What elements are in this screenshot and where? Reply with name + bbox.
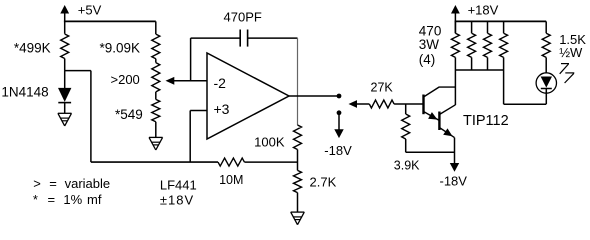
svg-text:±18V: ±18V (160, 193, 194, 208)
resistor 3.9K (405, 104, 407, 114)
potentiometer >200 (155, 59, 157, 63)
svg-text:½W: ½W (559, 45, 583, 60)
svg-text:-18V: -18V (324, 143, 352, 158)
node output dot (337, 94, 342, 99)
resistor 100K (294, 125, 302, 150)
svg-text:*499K: *499K (14, 41, 51, 56)
svg-text:+18V: +18V (468, 3, 499, 18)
wire +18V rail (455, 20, 547, 22)
resistor 470 #4 (503, 21, 505, 33)
power +5V (60, 5, 69, 14)
resistor 2.7K (294, 170, 302, 192)
svg-text:*9.09K: *9.09K (100, 40, 141, 55)
svg-text:+5V: +5V (78, 3, 102, 18)
svg-text:-18V: -18V (440, 173, 468, 188)
transistor Q1 (TIP112 first) (422, 95, 424, 115)
svg-text:LF441: LF441 (160, 178, 197, 193)
feedback wire vertical (190, 38, 192, 81)
svg-text:1N4148: 1N4148 (1, 84, 48, 99)
wire feedback to output node (297, 38, 299, 125)
resistor R *499K (61, 34, 69, 59)
LED D2 (536, 73, 556, 93)
resistor 10M (218, 158, 244, 166)
node A wire to bottom rail (65, 70, 91, 72)
svg-text:2.7K: 2.7K (310, 175, 337, 190)
diode D1 1N4148 (64, 71, 66, 88)
svg-text:100K: 100K (254, 135, 285, 150)
svg-text:470PF: 470PF (224, 10, 262, 25)
resistor *9.09K (155, 21, 157, 34)
capacitor C1 470PF (191, 37, 241, 39)
op-amp U1 LF441 (207, 53, 289, 139)
svg-text:3W: 3W (419, 37, 440, 52)
resistor 470 #3 (487, 21, 489, 33)
wire emitter to -18V (454, 138, 456, 163)
wire resistor bottom bar (455, 69, 503, 71)
svg-text:-2: -2 (214, 75, 227, 91)
resistor 1.5K (545, 21, 547, 33)
wire bar to LED cathode (503, 70, 505, 104)
wire op-amp output (289, 95, 339, 97)
LED emission arrows (561, 63, 569, 65)
svg-text:10M: 10M (219, 173, 243, 187)
ground under 2.7K (291, 211, 305, 213)
svg-text:3.9K: 3.9K (394, 159, 420, 173)
svg-text:>200: >200 (111, 72, 140, 87)
node -18V dot (337, 110, 342, 115)
wire +3 input (190, 110, 207, 112)
ground under diode (58, 112, 72, 114)
wire bottom rail (91, 161, 218, 163)
transistor Q2 (TIP112 second) (438, 112, 440, 131)
power -18V right (450, 163, 459, 172)
ground under 549 (149, 136, 163, 138)
svg-text:TIP112: TIP112 (463, 113, 509, 129)
svg-text:>=variable: >=variable (33, 176, 110, 191)
svg-text:+3: +3 (214, 101, 230, 117)
svg-text:27K: 27K (371, 81, 394, 95)
wire +5V rail (64, 20, 156, 22)
power -18V mid (338, 113, 340, 131)
svg-text:*=1%mf: *=1%mf (33, 192, 102, 207)
resistor 27K with connector arrow (349, 100, 358, 108)
svg-text:(4): (4) (419, 52, 436, 67)
resistor 470 #2 (471, 21, 473, 33)
svg-text:*549: *549 (115, 107, 143, 122)
power +18V (451, 5, 460, 14)
resistor 470 #1 (454, 21, 456, 33)
wire collector rail (454, 70, 456, 105)
potentiometer wiper arrow (166, 77, 175, 85)
resistor *549 (155, 92, 157, 100)
